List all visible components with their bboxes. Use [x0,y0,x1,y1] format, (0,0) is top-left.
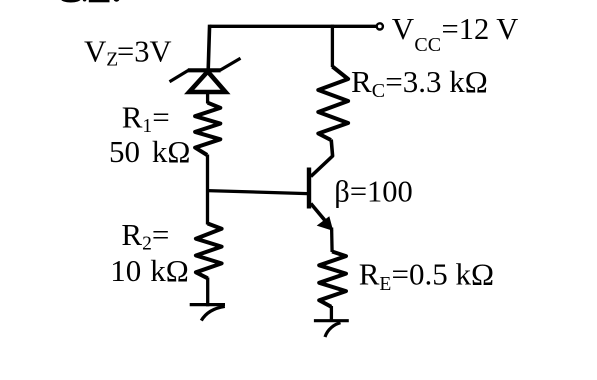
svg-text:V: V [84,34,107,69]
svg-text:=0.5 kΩ: =0.5 kΩ [392,257,495,292]
svg-text:10: 10 [110,253,141,288]
svg-text:E: E [379,274,391,295]
svg-text:R: R [359,257,380,292]
svg-text:kΩ: kΩ [152,134,191,169]
svg-text:V: V [392,11,415,46]
svg-text:R: R [121,217,142,252]
svg-text:50: 50 [109,134,140,169]
svg-text:=3.3 kΩ: =3.3 kΩ [385,64,488,99]
svg-text:1: 1 [142,116,152,137]
svg-text:β=100: β=100 [334,174,412,208]
svg-text:=12 V: =12 V [442,12,519,46]
svg-text:R: R [122,100,143,135]
svg-text:=: = [152,100,169,135]
svg-text:=: = [152,217,169,252]
svg-text:CC: CC [414,34,441,56]
svg-text:R: R [351,64,372,99]
svg-text:=3V: =3V [117,35,171,69]
svg-text:C: C [372,80,385,102]
svg-text:kΩ: kΩ [150,253,189,288]
svg-text:2: 2 [142,233,152,254]
